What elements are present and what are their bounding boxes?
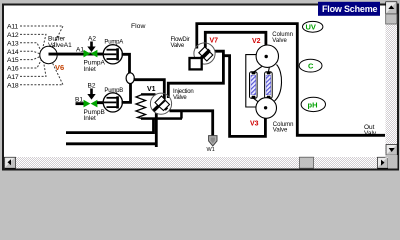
svg-text:Valv: Valv (364, 130, 377, 137)
mixer M1 (126, 73, 134, 84)
svg-text:V3: V3 (250, 120, 259, 127)
wire V6 to pumpA inlet (49, 53, 105, 56)
wire A11 to V6 (20, 26, 63, 48)
injection valve V1 internals (154, 96, 170, 111)
wire loop bottom to waste junction (141, 117, 182, 120)
wire V7 branch to V3 return (223, 56, 265, 137)
wire pumpA to mixer (122, 54, 130, 73)
bypass line around columns (246, 55, 256, 107)
wire V1 bottom port (155, 113, 158, 147)
column valve V2 circle (256, 45, 278, 67)
wire V7 to column valve V2 (205, 32, 266, 56)
wire A14 to V6 (20, 51, 40, 54)
svg-text:V7: V7 (210, 38, 219, 45)
svg-text:UV: UV (306, 23, 316, 32)
wire bottom long return (66, 142, 158, 145)
column 2 (265, 72, 273, 99)
svg-text:V6: V6 (55, 63, 64, 72)
svg-text:Flow Scheme: Flow Scheme (322, 4, 378, 14)
svg-text:Flow: Flow (131, 23, 145, 30)
wire A17 to V6 (20, 62, 46, 77)
h-scroll thumb (300, 157, 314, 168)
title bar (318, 2, 380, 16)
bypass arc right of columns (275, 65, 282, 102)
horizontal scrollbar track (4, 157, 388, 169)
pH monitor (301, 97, 325, 111)
buffer valve V6 circle (40, 46, 57, 63)
wire inlet valve B to pump B (97, 101, 104, 104)
svg-text:Valve: Valve (272, 38, 287, 44)
v-scroll thumb (386, 14, 397, 24)
wire V1 to flowdir valve V7 (168, 51, 223, 98)
svg-text:A12: A12 (7, 32, 19, 39)
svg-text:A15: A15 (7, 57, 19, 64)
wire B1 stub (76, 102, 85, 105)
pumpA inlet valve (green bowtie) (84, 50, 98, 58)
flow scheme canvas (7, 21, 385, 153)
svg-text:ValveA1: ValveA1 (48, 42, 72, 49)
svg-text:A13: A13 (7, 40, 19, 47)
wire V1 to waste W1 (170, 111, 213, 136)
vertical scrollbar track (386, 2, 398, 158)
waste W1 symbol (209, 136, 217, 146)
svg-text:A17: A17 (7, 74, 19, 81)
wire V2 to column 2 (267, 67, 270, 72)
wire loop junction riser (180, 110, 183, 119)
svg-text:Inlet: Inlet (84, 66, 96, 73)
svg-text:Valve: Valve (273, 128, 288, 134)
V2 center port (265, 55, 268, 58)
column 1 (250, 72, 258, 99)
flowdir valve V7 internals (196, 47, 213, 63)
svg-text:pH: pH (308, 100, 318, 109)
arrow B2 inlet (87, 89, 95, 100)
svg-text:Inlet: Inlet (84, 115, 96, 122)
wire column 2 to V3 (267, 98, 270, 99)
arrow A2 inlet (87, 42, 95, 53)
svg-text:Valve: Valve (173, 95, 187, 101)
v-scroll down arrow button (386, 145, 397, 156)
pumpB inlet valve (green bowtie) (84, 100, 98, 108)
window frame (3, 5, 398, 170)
conductivity monitor C (299, 59, 322, 72)
pump B (103, 93, 122, 112)
svg-text:V1: V1 (147, 86, 156, 93)
V3 center port (264, 106, 267, 109)
wire A18 to V6 (20, 62, 63, 85)
column valve V3 circle (256, 98, 277, 119)
V7 port block (190, 58, 202, 69)
wire pumpB to mixer (122, 84, 131, 103)
svg-text:A16: A16 (7, 66, 19, 73)
h-scroll left arrow button (5, 157, 16, 168)
wire A13 to V6 (20, 43, 41, 51)
wire A12 to V6 (20, 34, 46, 49)
svg-text:Valve: Valve (171, 43, 185, 49)
svg-text:C: C (308, 62, 314, 71)
scrollbar corner (388, 155, 398, 169)
svg-text:A14: A14 (7, 49, 19, 56)
wire A16 to V6 (20, 60, 42, 69)
wire column 1 to V3 (253, 98, 260, 103)
svg-text:A1: A1 (76, 47, 84, 54)
UV monitor (303, 21, 323, 32)
svg-text:A11: A11 (7, 24, 18, 31)
window background (0, 0, 400, 172)
svg-text:A2: A2 (88, 36, 96, 43)
pump A (103, 45, 122, 64)
h-scroll right arrow button (378, 157, 389, 168)
wire V7 to UV (top long line) (197, 24, 385, 136)
svg-text:W1: W1 (207, 147, 215, 153)
v-scroll up arrow button (386, 2, 397, 14)
wire loop top stub (141, 93, 156, 95)
wire V2 to column 1 (253, 67, 261, 73)
svg-text:V2: V2 (252, 38, 261, 45)
injection valve V1 circle (150, 93, 171, 114)
wire A15 to V6 (20, 57, 40, 60)
svg-text:A18: A18 (7, 82, 19, 89)
flowdir valve V7 circle (194, 43, 215, 64)
wire V1 bottom-left return (66, 119, 154, 133)
wire mixer to injection valve V1 (134, 80, 165, 99)
sample loop zigzag (136, 94, 146, 118)
